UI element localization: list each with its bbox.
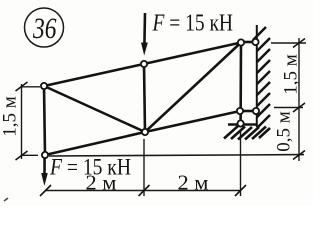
left dimension ticks <box>16 82 28 160</box>
node E <box>238 39 244 45</box>
member A-D diagonal <box>44 86 145 132</box>
member A-B left vertical <box>44 86 45 155</box>
node D <box>142 129 148 135</box>
node B <box>42 152 48 158</box>
force arrow at node B <box>41 155 48 186</box>
problem number circle 36 <box>25 8 64 47</box>
member D-F bottom chord right <box>145 111 240 132</box>
member C-D vertical <box>144 64 145 132</box>
svg-text:F = 15 кН: F = 15 кН <box>152 11 233 37</box>
bottom dimension ticks <box>40 185 246 196</box>
wire: long extension line from node B to right dimension <box>49 155 304 156</box>
node F' wall pin bottom <box>253 108 259 114</box>
svg-text:0,5 м: 0,5 м <box>274 111 295 152</box>
svg-text:1,5 м: 1,5 м <box>0 96 21 137</box>
speck artifact bottom left <box>4 198 8 201</box>
svg-text:1,5 м: 1,5 м <box>281 54 302 95</box>
svg-text:36: 36 <box>32 12 56 45</box>
link F-F' to wall <box>240 110 256 113</box>
node A <box>41 83 47 89</box>
member top chord A-C-E <box>44 43 241 87</box>
node E' wall pin top <box>252 39 258 45</box>
ground bracket hatching <box>224 126 270 140</box>
member B-D bottom chord left <box>45 132 145 155</box>
ground bracket top edge <box>228 123 257 125</box>
node C <box>141 61 147 67</box>
force arrow at top node C <box>141 13 148 56</box>
wall hatching <box>253 27 270 128</box>
right dimension line <box>271 38 306 161</box>
right dimension ticks <box>293 39 305 160</box>
member D-E diagonal <box>145 43 241 133</box>
node G support pin <box>238 120 244 126</box>
wall edge line <box>256 25 258 127</box>
bottom dimension line <box>46 130 241 196</box>
node F <box>237 108 243 114</box>
member E-F-G right vertical <box>239 43 242 124</box>
link E-E' to wall <box>241 41 256 44</box>
left dimension line <box>22 84 41 159</box>
svg-text:2 м: 2 м <box>178 171 209 195</box>
svg-text:2 м: 2 м <box>86 171 117 195</box>
